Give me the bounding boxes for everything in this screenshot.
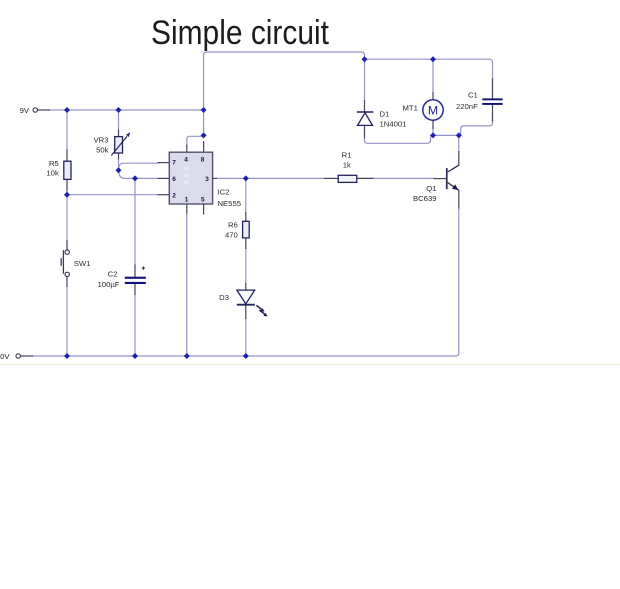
resistor R6 (243, 221, 250, 238)
wire pin1 column (186, 213, 188, 357)
svg-text:D1: D1 (380, 110, 390, 119)
lead Q1 emitter lower (458, 190, 460, 209)
svg-text:3: 3 (205, 176, 209, 183)
wire pin2 (67, 194, 159, 196)
svg-text:IC2: IC2 (218, 188, 230, 197)
wire second top rail (365, 59, 493, 79)
wire top rail (204, 52, 365, 135)
faint canvas edge line (0, 364, 620, 366)
lead R6 top (245, 212, 247, 222)
node 0V-pin1 (184, 353, 190, 359)
diode D1 (357, 112, 374, 125)
lead R5 top (66, 150, 68, 162)
motor MT1 (423, 100, 443, 120)
wire collector column (458, 135, 460, 152)
terminal 9V (33, 108, 37, 112)
lead D1 top (364, 100, 366, 113)
svg-text:4: 4 (184, 156, 188, 163)
svg-text:R5: R5 (49, 159, 59, 168)
svg-text:Q1: Q1 (426, 184, 436, 193)
lead pin4 stub (186, 145, 188, 153)
lead SW1 bottom (66, 277, 68, 287)
svg-text:50k: 50k (96, 145, 109, 154)
svg-text:R1: R1 (342, 151, 352, 160)
svg-text:NE555: NE555 (218, 199, 242, 208)
lead pin6 stub (158, 177, 170, 179)
lead R5 bottom (66, 179, 68, 191)
lead 9V stub (38, 109, 51, 111)
lead 0V stub (21, 355, 34, 357)
svg-text:1N4001: 1N4001 (380, 120, 407, 129)
lead R1 left (324, 177, 339, 179)
lead C2 top (134, 265, 136, 278)
resistor R5 (64, 161, 71, 179)
svg-text:8: 8 (201, 156, 205, 163)
lead D3 top (245, 283, 247, 290)
lead Q1 base (434, 178, 447, 180)
lead D1 bottom (364, 125, 366, 138)
node 9V-top (201, 107, 207, 113)
lead Q1 collector (458, 151, 460, 166)
lead VR3 top (118, 130, 120, 138)
wire C2 column (134, 178, 136, 356)
node R5-pin2 (64, 192, 70, 198)
wire pin3 to R1 (216, 177, 435, 179)
svg-text:BC639: BC639 (413, 194, 437, 203)
svg-text:5: 5 (201, 197, 205, 204)
wire pin4 to pin8 junction (187, 136, 204, 145)
lead VR3 bottom (118, 153, 120, 160)
lead pin3 stub (213, 177, 217, 179)
wire MT1 to collector node (433, 134, 459, 136)
wire MT1 column (432, 59, 434, 135)
node 0V-C2 (132, 353, 138, 359)
wire 9V rail (49, 109, 204, 111)
resistor R1 (338, 175, 357, 182)
lead pin8 stub (203, 141, 205, 153)
svg-text:9V: 9V (20, 106, 30, 115)
node collector (456, 132, 462, 138)
wire C1 bottom to collector node (459, 119, 493, 136)
svg-text:6: 6 (172, 176, 176, 183)
node pin6-C2 (132, 175, 138, 181)
wire VR3 to pin7 (119, 163, 159, 170)
svg-text:7: 7 (172, 160, 176, 167)
lead C1 top (492, 78, 494, 99)
terminal 0V (16, 354, 20, 358)
op-amp-style IC body IC2 NE555 (169, 152, 212, 204)
node junctions (diamonds) (64, 56, 462, 359)
svg-text:100µF: 100µF (98, 280, 120, 289)
svg-text:C1: C1 (468, 91, 478, 100)
lead D3 bottom (245, 305, 247, 319)
node 9V-R5 (64, 107, 70, 113)
lead SW1 top (66, 240, 68, 250)
lead pin2 stub (158, 194, 170, 196)
capacitor C2 (125, 266, 146, 284)
svg-text:Simple circuit: Simple circuit (151, 14, 329, 52)
transistor Q1 (446, 165, 459, 190)
svg-text:0V: 0V (0, 352, 10, 361)
svg-text:C2: C2 (108, 270, 118, 279)
svg-text:SW1: SW1 (74, 259, 91, 268)
svg-text:470: 470 (225, 230, 238, 239)
svg-text:+: + (141, 266, 145, 273)
node 0V-SW1 (64, 353, 70, 359)
lead pin5 stub (203, 204, 205, 215)
node MT1 bottom (430, 132, 436, 138)
wire VR3 bottom (118, 159, 120, 171)
svg-text:VR3: VR3 (94, 136, 109, 145)
wire R6 D3 column (245, 178, 247, 356)
switch SW1 (61, 250, 69, 277)
svg-text:2: 2 (172, 192, 176, 199)
wire D1 column and to MT1 (365, 59, 434, 143)
wire R5 column (66, 110, 68, 356)
svg-text:M: M (428, 104, 438, 118)
capacitor C1 (482, 98, 502, 105)
node pin8 (201, 132, 207, 138)
wire VR3 top (118, 110, 120, 131)
svg-text:1k: 1k (343, 161, 351, 170)
svg-text:220nF: 220nF (456, 102, 478, 111)
wire VR3 to pin6 node (119, 170, 136, 178)
potentiometer VR3 (111, 132, 130, 155)
node 9V-VR3 (116, 107, 122, 113)
LED D3 (237, 290, 268, 316)
lead R1 right (357, 177, 374, 179)
wire 0V rail (33, 208, 459, 357)
lead C1 bottom (492, 105, 494, 122)
svg-text:D3: D3 (219, 293, 229, 302)
svg-text:10k: 10k (46, 169, 59, 178)
lead MT1 top (432, 92, 434, 100)
svg-text:R6: R6 (228, 221, 238, 230)
node VR3 bottom (116, 167, 122, 173)
node D1 top (362, 56, 368, 62)
lead MT1 bottom (432, 120, 434, 129)
lead pin1 stub (186, 204, 188, 214)
wire pin6 (135, 177, 159, 179)
lead pin7 stub (158, 162, 170, 164)
svg-text:MT1: MT1 (403, 104, 418, 113)
node MT1 top (430, 56, 436, 62)
node 0V-D3 (243, 353, 249, 359)
svg-text:1: 1 (185, 197, 189, 204)
lead C2 bottom (134, 284, 136, 296)
lead R6 bottom (245, 238, 247, 249)
node pin3-R6 (243, 175, 249, 181)
